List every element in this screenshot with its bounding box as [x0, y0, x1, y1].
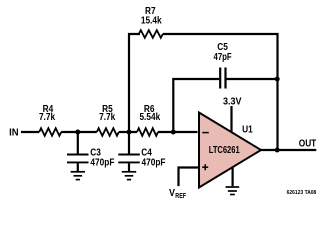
svg-text:626123 TA08: 626123 TA08 [287, 190, 317, 196]
svg-text:470pF: 470pF [90, 157, 114, 168]
svg-text:V: V [169, 187, 175, 199]
svg-text:U1: U1 [242, 124, 253, 135]
svg-text:3.3V: 3.3V [223, 96, 242, 108]
svg-text:470pF: 470pF [142, 157, 166, 168]
svg-text:7.7k: 7.7k [39, 111, 56, 122]
svg-text:LTC6261: LTC6261 [209, 144, 240, 155]
svg-text:7.7k: 7.7k [99, 111, 116, 122]
svg-text:5.54k: 5.54k [139, 111, 161, 122]
svg-text:47pF: 47pF [214, 51, 233, 62]
svg-text:IN: IN [9, 127, 18, 138]
svg-text:REF: REF [175, 192, 186, 200]
svg-text:15.4k: 15.4k [141, 15, 163, 26]
svg-text:OUT: OUT [299, 138, 317, 149]
